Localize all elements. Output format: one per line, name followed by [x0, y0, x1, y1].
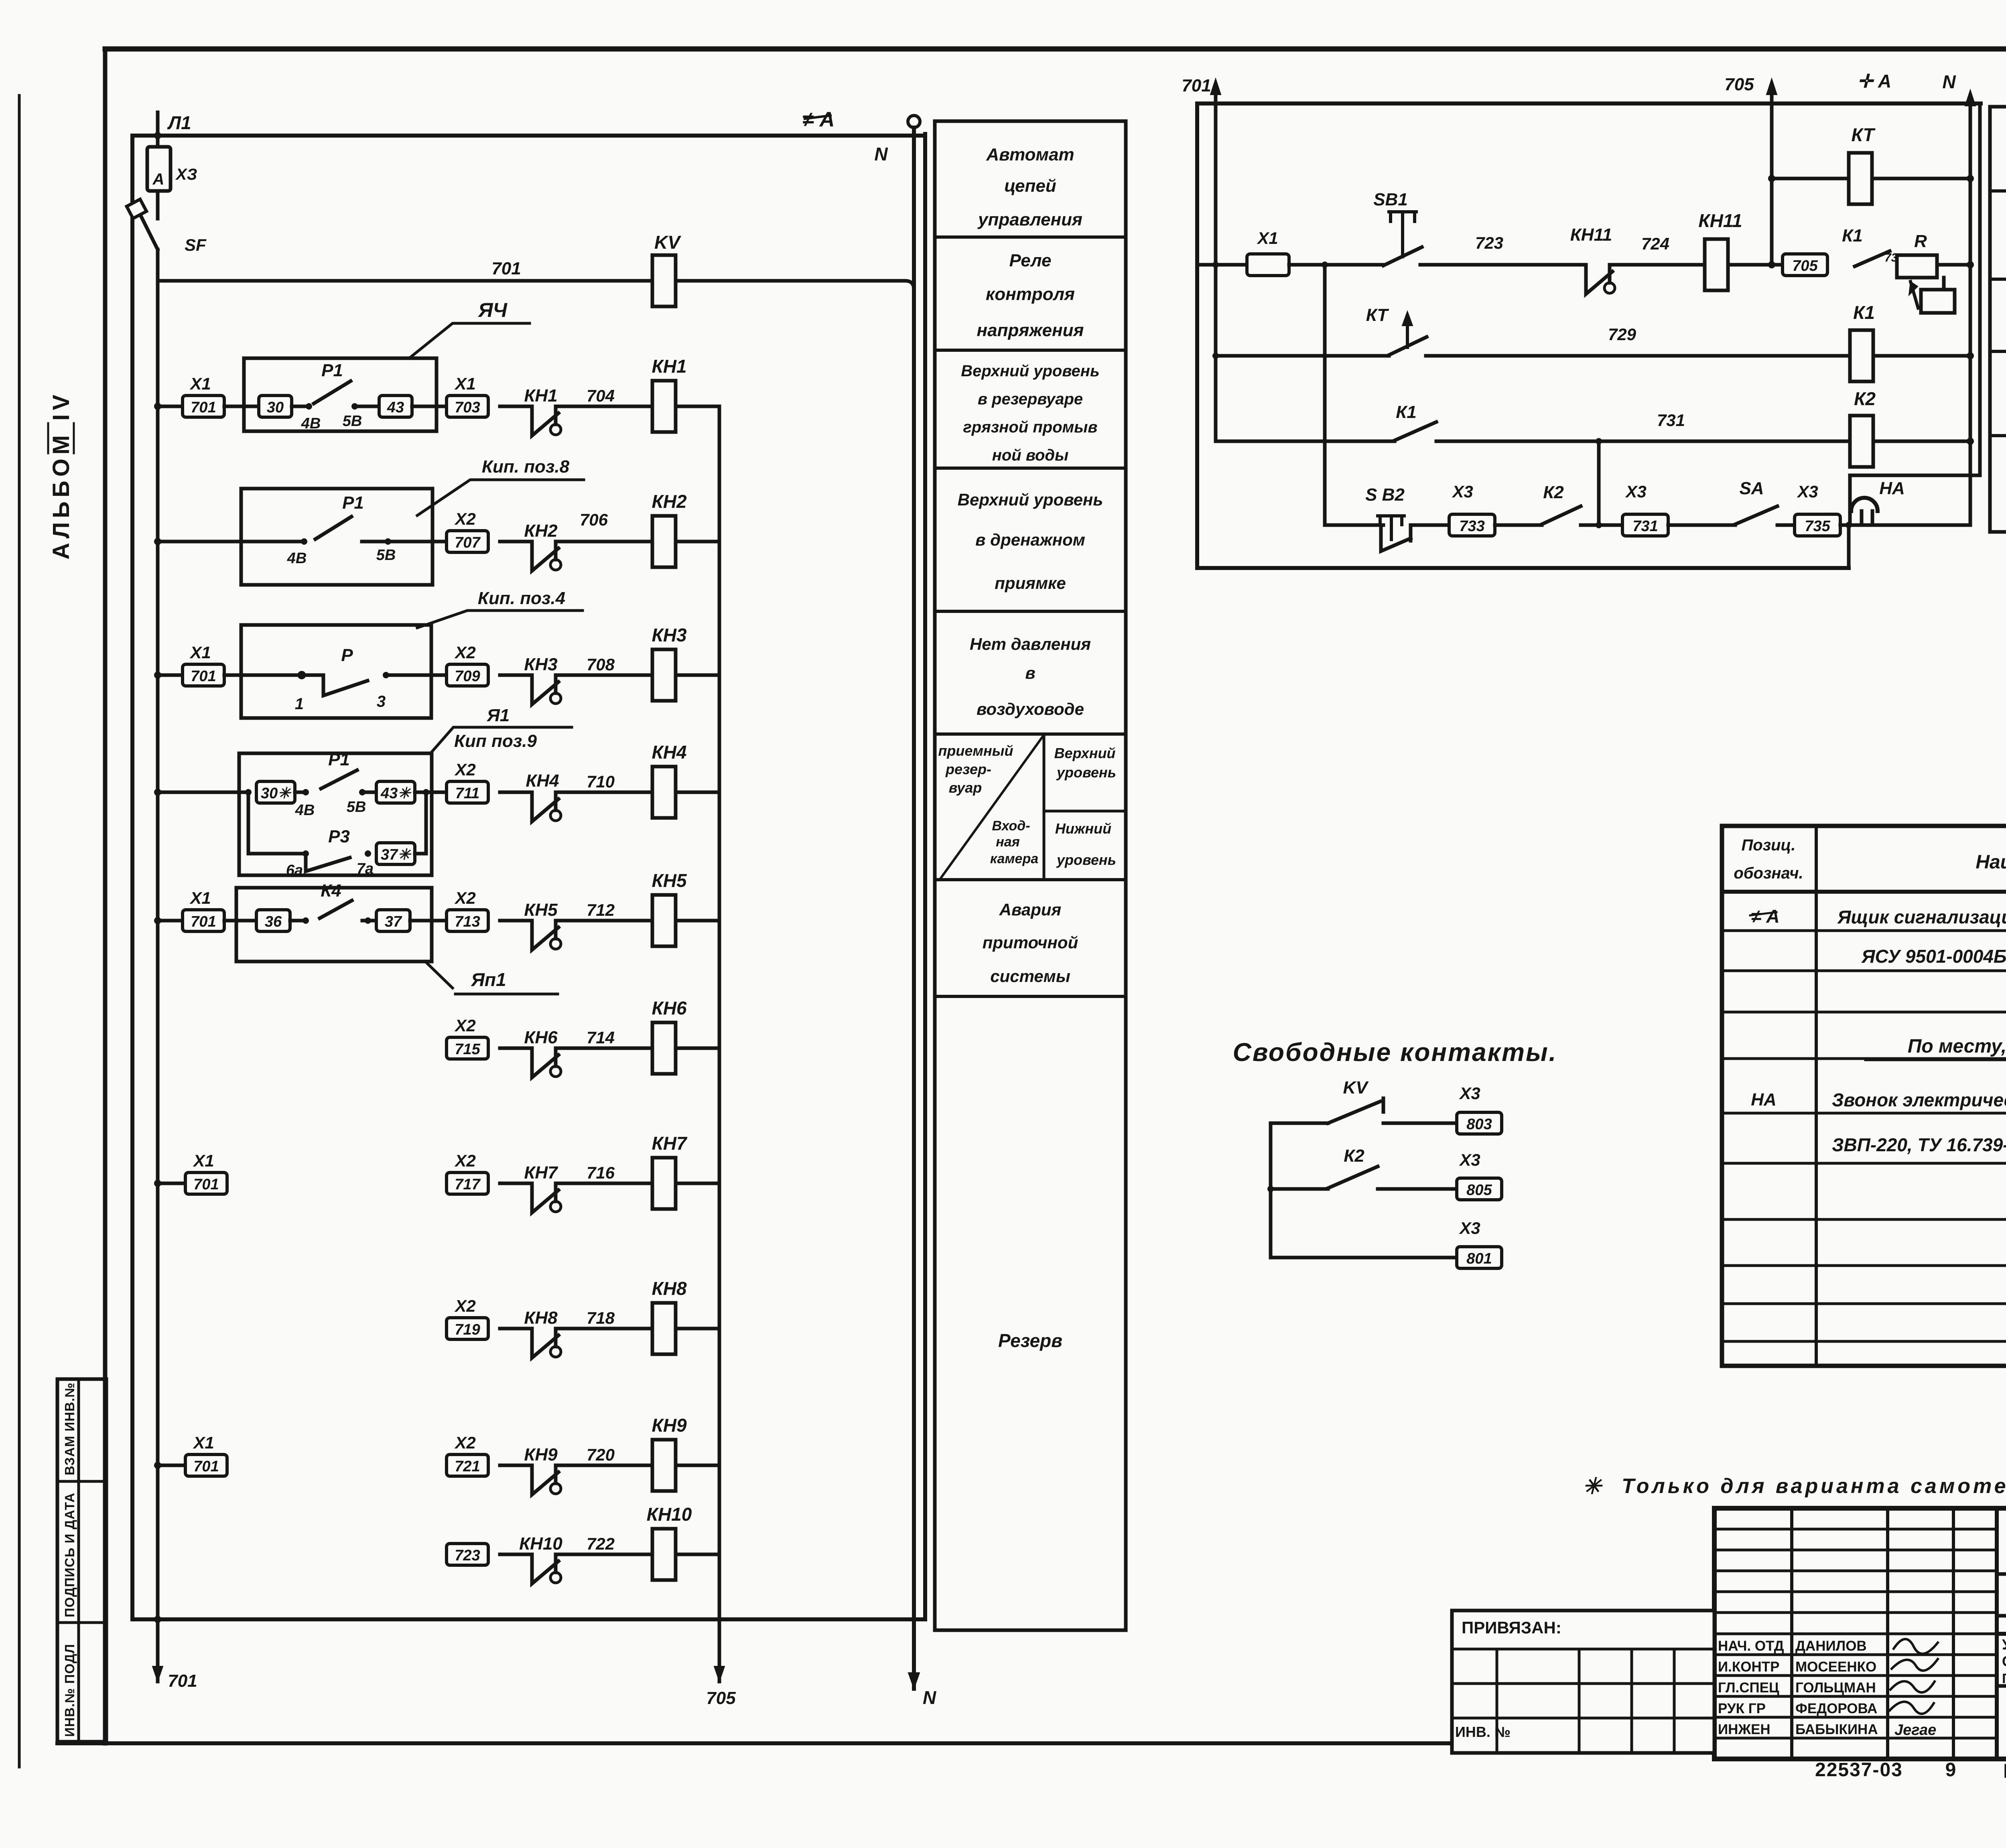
- svg-text:801: 801: [1466, 1250, 1492, 1267]
- svg-text:✳: ✳: [1583, 1473, 1603, 1499]
- wire SB2 to 733: [1411, 523, 1449, 527]
- svg-text:камера: камера: [990, 851, 1038, 866]
- svg-text:Верхний: Верхний: [1054, 745, 1116, 761]
- svg-text:713: 713: [455, 913, 480, 930]
- svg-text:R: R: [1914, 231, 1927, 251]
- svg-text:733: 733: [1459, 518, 1484, 535]
- rail 701 vertical: [156, 250, 160, 1682]
- rung A wire from boundary: [1197, 263, 1247, 267]
- svg-text:КН7: КН7: [524, 1163, 558, 1183]
- svg-text:Яп1: Яп1: [471, 969, 506, 990]
- rung C wire: [1216, 440, 1395, 443]
- device box КИП поз.4: [241, 625, 431, 718]
- svg-text:4В: 4В: [301, 415, 321, 432]
- svg-text:К1: К1: [1842, 226, 1863, 245]
- N vertical right with up arrow: [1969, 96, 1972, 525]
- svg-text:X1: X1: [189, 374, 211, 393]
- wire rung5 from rail: [158, 919, 182, 923]
- rail 705 bottom arrow: [714, 1666, 725, 1682]
- svg-text:803: 803: [1466, 1116, 1492, 1133]
- svg-text:N: N: [874, 144, 888, 164]
- contact K4: [290, 919, 306, 923]
- svg-text:Р1: Р1: [321, 361, 343, 380]
- title block vertical dividers left part: [1790, 1508, 1793, 1759]
- svg-text:БАБЫКИНА: БАБЫКИНА: [1795, 1722, 1878, 1737]
- svg-text:701: 701: [491, 259, 521, 278]
- svg-text:КН3: КН3: [652, 625, 686, 645]
- title block left grid rows: [1714, 1528, 1997, 1531]
- svg-text:X1: X1: [189, 643, 211, 662]
- breaker SF: [141, 217, 158, 250]
- rail 701 bottom arrow: [152, 1666, 163, 1682]
- signature squiggles: [1890, 1639, 1938, 1714]
- svg-text:Р3: Р3: [328, 827, 350, 846]
- svg-text:АЛЬБОМ IV: АЛЬБОМ IV: [48, 391, 74, 560]
- svg-text:716: 716: [587, 1163, 615, 1182]
- svg-text:напряжения: напряжения: [977, 321, 1084, 340]
- svg-text:7а: 7а: [357, 860, 374, 877]
- svg-text:Только для варианта самотечной: Только для варианта самотечной подачи ст…: [1622, 1475, 2006, 1498]
- svg-text:ГОЛЬЦМАН: ГОЛЬЦМАН: [1795, 1680, 1876, 1696]
- contact P rung3: [224, 673, 302, 677]
- svg-text:43✳: 43✳: [380, 785, 412, 802]
- svg-text:5В: 5В: [343, 413, 362, 430]
- right label column box: [1990, 107, 2006, 532]
- svg-text:КН6: КН6: [524, 1028, 558, 1047]
- wire rung7 stub from rail: [158, 1182, 185, 1185]
- svg-text:воздуховоде: воздуховоде: [977, 700, 1084, 718]
- svg-text:КН2: КН2: [524, 521, 558, 541]
- svg-text:Х2: Х2: [454, 760, 475, 779]
- svg-text:701: 701: [191, 668, 216, 685]
- branch P3 lower: [247, 792, 250, 854]
- svg-text:Х2: Х2: [454, 1151, 475, 1170]
- svg-text:Х2: Х2: [454, 643, 475, 662]
- svg-text:УСТАНОВКА ГЛУБОКОЙ ОЧИСТКИ: УСТАНОВКА ГЛУБОКОЙ ОЧИСТКИ: [2002, 1636, 2006, 1653]
- svg-text:Звонок электрический: Звонок электрический: [1832, 1089, 2006, 1110]
- svg-text:уровень: уровень: [1056, 852, 1116, 868]
- wire coil КН7 to rail: [677, 1182, 719, 1185]
- wire coil КН8 to rail: [677, 1327, 719, 1331]
- svg-text:НА: НА: [1879, 479, 1905, 498]
- svg-text:724: 724: [1641, 234, 1669, 253]
- N bus bottom arrow: [908, 1673, 920, 1689]
- svg-text:КН3: КН3: [524, 655, 557, 674]
- wire coil KH1 to rail: [677, 405, 719, 408]
- wire rung9 stub from rail: [158, 1464, 185, 1467]
- svg-text:708: 708: [587, 655, 615, 674]
- svg-text:Х3: Х3: [1625, 482, 1646, 501]
- svg-text:К2: К2: [1543, 483, 1564, 502]
- svg-text:X1: X1: [193, 1433, 214, 1452]
- device box ЯЧ: [244, 358, 437, 431]
- svg-text:КТ: КТ: [1852, 124, 1876, 145]
- svg-text:30: 30: [267, 399, 284, 416]
- svg-text:ЯЧ: ЯЧ: [477, 299, 508, 321]
- svg-text:N: N: [1942, 71, 1956, 92]
- wire rung3 from rail: [158, 673, 182, 677]
- wire coil КН9 to rail: [677, 1464, 719, 1467]
- SB2 row left wire: [1325, 523, 1383, 527]
- svg-text:Јегае: Јегае: [1894, 1722, 1936, 1738]
- svg-text:Х3: Х3: [1452, 482, 1473, 501]
- svg-text:731: 731: [1657, 411, 1685, 430]
- svg-text:SF: SF: [185, 235, 207, 254]
- svg-text:грязной промыв: грязной промыв: [963, 418, 1097, 436]
- svg-text:1: 1: [295, 695, 304, 713]
- svg-text:резер-: резер-: [945, 761, 991, 777]
- svg-text:Резерв: Резерв: [998, 1330, 1062, 1351]
- svg-text:Кип. поз.4: Кип. поз.4: [478, 588, 565, 608]
- circuit bottom boundary wire: [1197, 566, 1849, 570]
- svg-text:ПРОИЗВОДИТЕЛЬНОСТЬЮ 2,7тыс.м³/: ПРОИЗВОДИТЕЛЬНОСТЬЮ 2,7тыс.м³/сут.: [2002, 1671, 2006, 1686]
- svg-text:Х2: Х2: [454, 889, 475, 907]
- frame border bottom: [57, 1741, 1714, 1745]
- svg-text:А: А: [152, 170, 164, 188]
- split cell dividers: [1043, 734, 1046, 880]
- device box ЯП1: [236, 888, 432, 962]
- svg-text:Кип поз.9: Кип поз.9: [454, 731, 537, 751]
- frame border left: [103, 49, 108, 1743]
- svg-text:Верхний уровень: Верхний уровень: [961, 362, 1099, 380]
- svg-text:731: 731: [1632, 518, 1658, 535]
- svg-text:ВЗАМ ИНВ.№: ВЗАМ ИНВ.№: [62, 1382, 77, 1475]
- svg-text:Х2: Х2: [454, 509, 475, 528]
- wire KV to N bus: [677, 281, 914, 290]
- svg-text:701: 701: [1182, 76, 1211, 95]
- junction bottom boundary: [1847, 525, 1851, 568]
- svg-text:К2: К2: [1854, 388, 1876, 409]
- terminal 37: [376, 910, 410, 931]
- svg-text:КТ: КТ: [1366, 305, 1389, 325]
- svg-text:контроля: контроля: [986, 284, 1075, 304]
- svg-text:706: 706: [580, 510, 608, 529]
- svg-text:701: 701: [191, 399, 216, 416]
- svg-text:приточной: приточной: [983, 933, 1078, 952]
- svg-text:720: 720: [587, 1445, 615, 1464]
- svg-text:721: 721: [455, 1458, 480, 1475]
- terminal 37*: [376, 843, 415, 864]
- svg-text:КОПИРОВАЛ:ЛОГИНОВА: КОПИРОВАЛ:ЛОГИНОВА: [2003, 1760, 2006, 1782]
- svg-text:ДАНИЛОВ: ДАНИЛОВ: [1795, 1638, 1867, 1654]
- svg-text:9: 9: [1945, 1759, 1956, 1781]
- svg-text:цепей: цепей: [1004, 176, 1056, 196]
- svg-text:710: 710: [587, 772, 615, 791]
- svg-text:805: 805: [1466, 1182, 1492, 1199]
- svg-text:701: 701: [193, 1176, 219, 1193]
- svg-text:729: 729: [1608, 325, 1636, 344]
- svg-text:в: в: [1025, 663, 1035, 682]
- vertical 731 junction to SB2 row: [1597, 441, 1601, 525]
- terminal 43: [379, 396, 412, 417]
- svg-text:705: 705: [1724, 75, 1754, 94]
- svg-text:НАЧ. ОТД: НАЧ. ОТД: [1718, 1638, 1784, 1654]
- svg-text:По месту,: По месту,: [1908, 1036, 2006, 1057]
- svg-text:711: 711: [455, 785, 480, 802]
- svg-text:КН8: КН8: [524, 1308, 558, 1328]
- terminal 43*: [376, 781, 415, 803]
- svg-text:ИНВ. №: ИНВ. №: [1455, 1724, 1511, 1740]
- device box Я1 КИП поз.9: [239, 753, 432, 875]
- wire X1 to SB1: [1289, 263, 1383, 267]
- svg-text:37: 37: [385, 913, 402, 930]
- svg-text:36: 36: [265, 913, 282, 930]
- wire rung4 from rail: [158, 791, 248, 794]
- wire R to N: [1937, 263, 1970, 267]
- phase vertical right of ladder: [923, 134, 927, 1619]
- svg-text:Позиц.: Позиц.: [1742, 836, 1796, 854]
- svg-text:в резервуаре: в резервуаре: [978, 390, 1083, 408]
- svg-text:Л1: Л1: [167, 112, 191, 133]
- svg-text:≠ А: ≠ А: [1751, 906, 1779, 927]
- svg-text:НА: НА: [1751, 1090, 1777, 1110]
- page scan edge line left: [18, 95, 21, 1767]
- fuse feeder wire: [156, 112, 160, 147]
- svg-text:X1: X1: [1257, 229, 1278, 247]
- callout ЯЧ: [409, 323, 530, 358]
- svg-text:5В: 5В: [347, 799, 366, 815]
- wire rung1 from rail: [158, 405, 182, 408]
- svg-text:735: 735: [1805, 518, 1830, 535]
- svg-text:Авария: Авария: [999, 900, 1062, 919]
- svg-text:Х2: Х2: [454, 1016, 475, 1035]
- svg-text:К4: К4: [321, 881, 341, 901]
- wire fuse to SF: [156, 191, 160, 219]
- svg-text:КН9: КН9: [524, 1445, 558, 1465]
- svg-text:в дренажном: в дренажном: [975, 530, 1085, 549]
- frame border top: [105, 47, 2006, 52]
- svg-text:704: 704: [587, 386, 615, 405]
- svg-text:N: N: [923, 1687, 936, 1708]
- svg-text:приемный: приемный: [938, 742, 1013, 759]
- svg-text:X1: X1: [193, 1151, 214, 1170]
- callout КИП поз.8: [417, 480, 584, 515]
- title block horizontal dividers right part: [1997, 1572, 2006, 1576]
- svg-text:К1: К1: [1396, 402, 1417, 422]
- left vertical stamp box: [57, 1379, 106, 1742]
- terminal 36: [224, 919, 256, 923]
- aux vertical right: [1978, 103, 1982, 475]
- vertical 701 to rung C: [1214, 265, 1218, 441]
- svg-text:КН9: КН9: [652, 1415, 686, 1436]
- svg-text:ной воды: ной воды: [992, 446, 1069, 464]
- rail 705 vertical: [718, 406, 721, 1682]
- terminal X2 723: [447, 1544, 488, 1565]
- link wire to aux vertical: [1850, 474, 1980, 477]
- KT rung wire: [1772, 177, 1849, 181]
- svg-text:КН10: КН10: [519, 1534, 562, 1554]
- wire coil KH4 to rail: [677, 791, 719, 794]
- svg-text:КН11: КН11: [1570, 225, 1612, 245]
- svg-text:6а: 6а: [286, 862, 303, 879]
- branch vertical X1 to SB2 row: [1323, 265, 1327, 525]
- svg-text:Кип. поз.8: Кип. поз.8: [482, 457, 570, 477]
- wire coil КН10 to rail: [677, 1553, 719, 1556]
- callout ЯП1: [425, 962, 558, 994]
- svg-text:Х3: Х3: [1459, 1219, 1480, 1237]
- function label column box: [935, 121, 1126, 1630]
- title block outer box: [1714, 1508, 2006, 1759]
- svg-text:3: 3: [377, 693, 386, 710]
- svg-text:КН4: КН4: [526, 771, 559, 791]
- svg-text:718: 718: [587, 1308, 615, 1327]
- wire coil KH3 to rail: [677, 673, 719, 677]
- svg-text:МОСЕЕНКО: МОСЕЕНКО: [1795, 1659, 1876, 1675]
- svg-text:715: 715: [455, 1041, 480, 1058]
- svg-text:ГЛ.СПЕЦ: ГЛ.СПЕЦ: [1718, 1680, 1779, 1696]
- svg-text:717: 717: [455, 1176, 481, 1193]
- svg-text:Х2: Х2: [454, 1433, 475, 1452]
- branch 801 wire: [1271, 1256, 1457, 1260]
- svg-text:723: 723: [1475, 233, 1503, 252]
- svg-text:Р1: Р1: [328, 750, 350, 769]
- wire K2 coil to N: [1873, 440, 1970, 443]
- svg-text:КН4: КН4: [652, 742, 686, 763]
- device box КИП поз.8: [241, 489, 432, 585]
- svg-text:КН1: КН1: [652, 356, 686, 377]
- svg-text:КН1: КН1: [524, 386, 557, 406]
- terminal X3 705: [1783, 254, 1827, 276]
- bottom return wire: [132, 1617, 925, 1621]
- bus L1 top horizontal: [132, 134, 925, 138]
- svg-text:30✳: 30✳: [261, 785, 292, 802]
- svg-text:SА: SА: [1739, 479, 1764, 498]
- terminal 30: [259, 396, 292, 417]
- wire to X2 711: [415, 791, 447, 794]
- wire coil KH5 to rail: [677, 919, 719, 923]
- svg-text:ФЕДОРОВА: ФЕДОРОВА: [1795, 1701, 1877, 1716]
- svg-text:701: 701: [193, 1458, 219, 1475]
- svg-text:Ящик сигнализации: Ящик сигнализации: [1837, 907, 2006, 927]
- svg-text:КН6: КН6: [652, 998, 686, 1018]
- wire coil КН6 to rail: [677, 1047, 719, 1050]
- svg-text:712: 712: [587, 901, 615, 919]
- svg-text:701: 701: [168, 1671, 197, 1691]
- callout Я1 КИП поз.9: [430, 727, 572, 753]
- svg-text:КН11: КН11: [1698, 210, 1742, 231]
- rung B wire: [1216, 354, 1389, 358]
- svg-text:KV: KV: [1343, 1078, 1369, 1097]
- svg-text:X1: X1: [454, 374, 475, 393]
- svg-text:4В: 4В: [287, 550, 307, 567]
- circuit top bus +A: [1197, 101, 1981, 105]
- feeder 701 vertical with up arrow: [1214, 85, 1218, 265]
- svg-text:КН2: КН2: [652, 491, 686, 512]
- svg-text:5В: 5В: [376, 547, 396, 564]
- svg-text:Р1: Р1: [342, 493, 364, 513]
- svg-text:709: 709: [455, 668, 480, 685]
- svg-text:✛ А: ✛ А: [1858, 71, 1892, 91]
- svg-text:ЯСУ 9501-0004БУХЛ4: ЯСУ 9501-0004БУХЛ4: [1861, 946, 2006, 967]
- svg-text:S В2: S В2: [1365, 485, 1405, 505]
- svg-text:Х3: Х3: [1797, 482, 1818, 501]
- svg-text:719: 719: [455, 1321, 480, 1338]
- svg-text:КН10: КН10: [647, 1504, 692, 1525]
- svg-text:управления: управления: [977, 210, 1082, 229]
- contact P1 rung4: [295, 791, 306, 794]
- svg-text:ИНЖЕН: ИНЖЕН: [1718, 1722, 1770, 1737]
- component table box: [1722, 826, 2006, 1366]
- svg-text:Автомат: Автомат: [986, 145, 1074, 164]
- svg-text:X1: X1: [189, 889, 211, 907]
- terminal 30*: [256, 781, 295, 803]
- svg-text:37✳: 37✳: [381, 846, 412, 863]
- svg-text:723: 723: [455, 1547, 480, 1564]
- svg-text:705: 705: [1792, 258, 1818, 274]
- svg-text:Вход-: Вход-: [992, 818, 1030, 834]
- svg-text:К2: К2: [1344, 1146, 1364, 1166]
- svg-text:ПОДПИСЬ И ДАТА: ПОДПИСЬ И ДАТА: [62, 1493, 77, 1617]
- wire K1 coil to N: [1873, 354, 1970, 358]
- svg-text:приямке: приямке: [995, 574, 1066, 592]
- svg-text:ХЗ: ХЗ: [175, 166, 197, 183]
- svg-text:703: 703: [455, 399, 480, 416]
- wire KH11 coil to 705 feeder: [1728, 263, 1783, 267]
- contact P1 rung1: [292, 405, 309, 408]
- bus 701 horizontal (KV rung): [158, 279, 653, 283]
- wire box to X1 703: [412, 405, 447, 408]
- svg-text:22537-03: 22537-03: [1815, 1759, 1903, 1781]
- svg-text:обознач.: обознач.: [1734, 864, 1803, 882]
- svg-text:КН5: КН5: [524, 900, 558, 920]
- fuse A: [147, 147, 171, 191]
- wire to device box: [224, 405, 261, 408]
- wire to X2 713: [410, 919, 447, 923]
- svg-text:705: 705: [706, 1688, 736, 1708]
- svg-text:4В: 4В: [295, 802, 315, 819]
- wire coil KH2 to rail: [677, 540, 719, 544]
- svg-text:И.КОНТР: И.КОНТР: [1718, 1659, 1779, 1675]
- svg-text:КН5: КН5: [652, 870, 687, 891]
- wire rung2 from rail: [158, 540, 241, 544]
- svg-text:SB1: SB1: [1373, 190, 1408, 209]
- svg-text:Нет давления: Нет давления: [970, 635, 1091, 653]
- svg-text:714: 714: [587, 1028, 615, 1047]
- resistor aux box: [1921, 290, 1955, 313]
- svg-text:Р: Р: [341, 645, 353, 665]
- svg-text:СТОЧНЫХ ВОД НА ФИЛЬТРАХ: СТОЧНЫХ ВОД НА ФИЛЬТРАХ: [2002, 1653, 2006, 1669]
- free contacts left bracket: [1269, 1123, 1273, 1258]
- svg-text:уровень: уровень: [1056, 764, 1116, 781]
- callout КИП поз.4: [417, 611, 583, 628]
- svg-text:вуар: вуар: [949, 779, 982, 796]
- svg-text:ПРИВЯЗАН:: ПРИВЯЗАН:: [1462, 1618, 1561, 1637]
- svg-text:707: 707: [455, 534, 481, 551]
- svg-text:ная: ная: [996, 834, 1019, 850]
- svg-text:РУК ГР: РУК ГР: [1718, 1701, 1766, 1716]
- svg-text:Верхний уровень: Верхний уровень: [958, 490, 1103, 509]
- svg-text:Х3: Х3: [1459, 1150, 1480, 1169]
- privyazan box: [1452, 1611, 1714, 1753]
- 705 feeder vertical with up arrow: [1770, 85, 1774, 265]
- svg-text:Реле: Реле: [1009, 251, 1051, 270]
- contact P1 rung2: [241, 540, 304, 544]
- circuit left boundary vertical: [1195, 103, 1199, 568]
- svg-text:Х3: Х3: [1459, 1084, 1480, 1103]
- svg-text:Я1: Я1: [487, 706, 510, 725]
- svg-text:К1: К1: [1853, 302, 1875, 323]
- N bus vertical: [912, 128, 916, 1689]
- svg-text:КН7: КН7: [652, 1133, 687, 1154]
- svg-text:KV: KV: [654, 232, 681, 253]
- svg-text:ЗВП-220, ТУ 16.739-059-76: ЗВП-220, ТУ 16.739-059-76: [1832, 1134, 2006, 1155]
- terminal circle A boundary: [908, 116, 920, 128]
- svg-text:ИНВ.№ ПОДЛ: ИНВ.№ ПОДЛ: [62, 1644, 77, 1737]
- svg-text:43: 43: [387, 399, 404, 416]
- svg-text:Нижний: Нижний: [1055, 820, 1111, 837]
- svg-text:Х2: Х2: [454, 1296, 475, 1315]
- svg-text:системы: системы: [990, 967, 1070, 986]
